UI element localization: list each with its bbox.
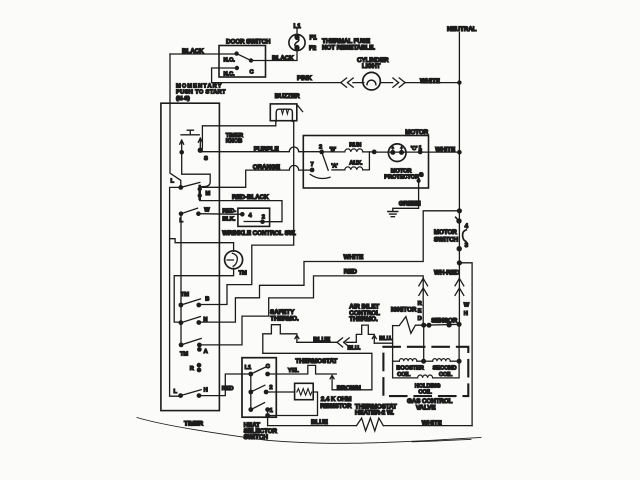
- motor protector: [388, 144, 406, 162]
- arrow safety tap: [295, 335, 299, 342]
- svg-text:BLU.: BLU.: [348, 346, 361, 352]
- label MOTOR PROTECTOR: [384, 169, 419, 181]
- page tear curve: [137, 418, 481, 444]
- svg-text:HEATER-2 W.: HEATER-2 W.: [355, 410, 394, 417]
- svg-text:COIL: COIL: [418, 390, 432, 396]
- svg-text:SENSOR: SENSOR: [431, 317, 458, 324]
- wire S to buzzer: [201, 122, 276, 151]
- svg-text:YEL: YEL: [288, 368, 299, 374]
- contact N: [179, 317, 202, 326]
- label TIMER KNOB: [226, 133, 243, 145]
- label THERMOSTAT HEATER-2 W.: [355, 403, 397, 416]
- solenoid M: [198, 186, 202, 199]
- contact 1: [418, 150, 423, 155]
- svg-text:TM: TM: [181, 292, 189, 298]
- sensor: [421, 322, 461, 328]
- svg-text:TM: TM: [239, 271, 247, 277]
- label AIR INLET CONTROL THERMO.: [349, 304, 380, 324]
- wire white bottom: [383, 425, 472, 427]
- node run/aux junction: [372, 150, 377, 155]
- wire protector to neutral (white): [420, 151, 459, 153]
- svg-text:E: E: [418, 309, 422, 315]
- wire TM supply from left rail: [170, 239, 234, 252]
- svg-text:N.C.: N.C.: [224, 72, 235, 78]
- svg-text:RED-: RED-: [222, 208, 236, 214]
- node WH-RED junction: [457, 260, 462, 265]
- svg-text:NEUTRAL: NEUTRAL: [447, 26, 477, 33]
- svg-text:BLACK: BLACK: [272, 55, 294, 62]
- node motor white junction: [457, 150, 462, 155]
- svg-text:RED-BLACK: RED-BLACK: [232, 194, 269, 201]
- svg-text:WHITE: WHITE: [422, 420, 442, 427]
- svg-text:A: A: [204, 349, 208, 355]
- wire red from timer H: [199, 374, 251, 396]
- wire brown loop: [263, 353, 372, 390]
- wire black feed to N.O.: [170, 53, 237, 55]
- wire red-black: [200, 199, 282, 222]
- wire orange: [202, 165, 312, 187]
- svg-text:M: M: [206, 191, 211, 197]
- svg-text:BUZZER: BUZZER: [275, 93, 300, 100]
- label thermal fuse: [322, 38, 375, 52]
- svg-text:H: H: [204, 388, 208, 394]
- svg-text:7: 7: [311, 162, 314, 168]
- svg-text:F2: F2: [309, 45, 317, 52]
- thermostat heater resistor: [357, 418, 384, 431]
- svg-text:THERMO.: THERMO.: [349, 316, 378, 323]
- motor switch blade 2-A: [322, 152, 329, 170]
- label HOLDING COIL: [415, 384, 441, 396]
- node G terminal: [417, 179, 421, 183]
- label HEAT SELECTOR SWITCH: [244, 422, 278, 441]
- air inlet control thermostat: [356, 325, 374, 342]
- wire blue bottom: [268, 425, 357, 427]
- svg-text:LIGHT: LIGHT: [362, 63, 381, 70]
- momentary contact arrow S: [198, 138, 203, 153]
- run winding: [322, 149, 375, 152]
- svg-text:G: G: [419, 172, 424, 178]
- svg-text:4: 4: [465, 223, 469, 230]
- wire fuse to door switch C: [252, 51, 298, 61]
- wire wh-red branch to WH vertical: [459, 263, 472, 426]
- svg-text:2.4 K OHM: 2.4 K OHM: [321, 396, 352, 403]
- wire sensor leg into valve: [458, 324, 460, 361]
- svg-text:SECOND: SECOND: [433, 366, 457, 372]
- svg-text:C: C: [250, 70, 254, 76]
- svg-text:RESISTOR: RESISTOR: [320, 403, 352, 410]
- node junction lamp/neutral: [457, 80, 461, 84]
- contact L-H: [178, 390, 201, 398]
- svg-text:W: W: [464, 303, 470, 309]
- label SAFETY THERMO.: [270, 309, 299, 323]
- svg-text:WH-RED: WH-RED: [434, 270, 460, 277]
- svg-text:L: L: [174, 389, 178, 395]
- svg-text:D: D: [418, 316, 422, 322]
- second coil: [424, 359, 460, 362]
- svg-text:2: 2: [262, 214, 265, 220]
- connector chevrons wh leg: [455, 278, 464, 295]
- svg-text:BLACK: BLACK: [182, 48, 204, 55]
- svg-text:RUN: RUN: [349, 142, 361, 148]
- wire pink line: [212, 82, 460, 84]
- wire black vertical down into timer: [170, 54, 181, 187]
- node neutral/motor-switch junction: [457, 208, 462, 213]
- svg-text:BLUE: BLUE: [313, 337, 330, 344]
- svg-text:RED: RED: [222, 386, 234, 392]
- label RED-BLK: [222, 208, 236, 222]
- svg-text:TM: TM: [180, 351, 188, 357]
- wire neutral vertical: [458, 32, 460, 211]
- svg-text:BLU.: BLU.: [379, 336, 392, 342]
- wire heat sel 1 stem: [267, 410, 269, 426]
- svg-text:WHITE: WHITE: [420, 78, 440, 85]
- connector chevrons pink right: [393, 78, 405, 87]
- label CYLINDER LIGHT: [357, 57, 389, 70]
- wrinkle control switch: [238, 208, 270, 226]
- motor box: [303, 136, 428, 189]
- label GAS CONTROL VALVE: [407, 398, 453, 411]
- wire ignitor leg into valve: [423, 325, 425, 361]
- connector chevrons red leg: [419, 278, 428, 295]
- wire WH down leg: [458, 263, 460, 325]
- door switch: [219, 46, 266, 78]
- node second coil junction: [457, 359, 462, 364]
- svg-text:BROWN: BROWN: [337, 385, 362, 392]
- svg-text:GREEN: GREEN: [399, 200, 421, 207]
- wire left contact rail: [180, 214, 182, 345]
- svg-text:WRINKLE CONTROL SW.: WRINKLE CONTROL SW.: [222, 230, 296, 237]
- svg-text:C: C: [266, 364, 270, 370]
- label MOMENTARY PUSH TO START: [176, 83, 226, 101]
- wire TM bottom to N contact: [174, 268, 233, 322]
- svg-text:BLUE: BLUE: [311, 419, 328, 426]
- label SECOND COIL: [433, 366, 457, 378]
- blade spring arc: [310, 174, 330, 178]
- svg-text:2: 2: [269, 385, 272, 391]
- wire buzzer right lead down to B staircase: [201, 121, 294, 304]
- safety thermostat: [263, 325, 297, 353]
- svg-text:BLK.: BLK.: [222, 217, 235, 223]
- arrow air inlet tap: [372, 335, 376, 343]
- svg-text:MOMENTARY: MOMENTARY: [176, 83, 223, 89]
- wire heat sel 2 to resistor: [266, 391, 295, 393]
- wire momentary hook to M: [182, 152, 211, 186]
- svg-text:W: W: [204, 207, 210, 213]
- svg-text:4: 4: [249, 213, 253, 219]
- svg-text:BOOSTER: BOOSTER: [396, 366, 423, 372]
- arrow brown tap: [330, 375, 334, 389]
- svg-text:WHITE: WHITE: [344, 254, 364, 261]
- gas control valve dashed box: [383, 347, 468, 396]
- connector chevrons pink left: [341, 78, 353, 87]
- svg-text:RED: RED: [344, 269, 358, 276]
- wire N.C. to pink line: [212, 68, 237, 83]
- buzzer: [270, 104, 302, 121]
- thermal fuse F1-F2: [289, 34, 305, 51]
- svg-text:L: L: [171, 179, 175, 185]
- holding coil loop: [393, 361, 460, 378]
- wire white riser to junction: [201, 211, 459, 322]
- timer motor TM: [225, 251, 243, 269]
- wire purple: [201, 147, 322, 152]
- svg-text:COIL: COIL: [439, 372, 453, 378]
- svg-text:F1: F1: [310, 35, 318, 42]
- cylinder light: [363, 72, 381, 90]
- svg-text:ORANGE: ORANGE: [253, 164, 280, 171]
- svg-text:R: R: [418, 301, 422, 307]
- contact L junction: [178, 182, 199, 189]
- svg-text:AUX.: AUX.: [349, 161, 363, 167]
- label BOOSTER COIL: [396, 366, 423, 378]
- page tear stroke 2: [412, 439, 471, 442]
- svg-text:'C': 'C': [411, 146, 418, 152]
- timer box: [161, 103, 220, 410]
- svg-text:TIMER: TIMER: [184, 421, 204, 428]
- contact TM-B: [179, 299, 202, 308]
- svg-text:COIL: COIL: [397, 372, 411, 378]
- contact A: [179, 338, 202, 351]
- timer knob push symbol: [181, 130, 199, 135]
- booster coil: [393, 359, 424, 362]
- wire resistor to heat sel 1: [268, 392, 318, 416]
- svg-text:PINK: PINK: [297, 75, 312, 82]
- svg-text:KNOB: KNOB: [226, 139, 242, 145]
- aux winding: [332, 152, 369, 170]
- svg-text:MOTOR: MOTOR: [434, 229, 457, 236]
- svg-text:'A': 'A': [331, 164, 338, 170]
- svg-text:N.O.: N.O.: [224, 58, 236, 64]
- svg-text:R: R: [190, 366, 194, 372]
- wire blue to valve: [374, 342, 392, 344]
- svg-text:B: B: [205, 296, 209, 302]
- node heater junction: [265, 413, 270, 418]
- svg-text:L1: L1: [245, 365, 251, 371]
- label MOTOR SWITCH: [434, 229, 459, 243]
- wire blue: [297, 341, 356, 343]
- svg-text:H: H: [464, 311, 468, 317]
- wire L1 to fuse: [296, 29, 298, 35]
- contact 7: [310, 168, 315, 173]
- label W H vertical: [464, 303, 470, 318]
- ignitor: [393, 317, 424, 334]
- svg-text:3: 3: [465, 242, 469, 249]
- wire G to ground: [393, 181, 419, 212]
- svg-text:IGNITOR: IGNITOR: [391, 307, 417, 314]
- svg-text:S: S: [204, 156, 208, 162]
- resistor 2.4K box: [295, 383, 314, 399]
- svg-text:MOTOR: MOTOR: [405, 129, 428, 136]
- wire junction to protector: [374, 151, 420, 153]
- label R E D vertical: [418, 301, 422, 322]
- wire valve left vertical: [392, 326, 394, 362]
- svg-text:DOOR SWITCH: DOOR SWITCH: [226, 39, 271, 46]
- svg-text:2: 2: [319, 145, 322, 151]
- svg-text:NOT RESETABLE.: NOT RESETABLE.: [322, 45, 375, 52]
- svg-text:THERMO.: THERMO.: [270, 316, 299, 323]
- node booster/second junction: [421, 359, 426, 364]
- thermostat yel line: [268, 365, 337, 374]
- svg-text:PUSH TO START: PUSH TO START: [176, 90, 226, 96]
- contact 2: [319, 150, 324, 155]
- momentary contact arrow left: [179, 140, 184, 155]
- svg-text:(M-S): (M-S): [176, 96, 190, 102]
- svg-text:PURPLE: PURPLE: [254, 146, 279, 153]
- label 2.4 K OHM RESISTOR: [320, 396, 352, 410]
- svg-text:THERMOSTAT: THERMOSTAT: [295, 358, 337, 365]
- svg-text:SWITCH: SWITCH: [434, 236, 459, 243]
- wire red staircase: [199, 276, 423, 345]
- connector chevrons blue: [337, 338, 349, 347]
- svg-text:PROTECTOR: PROTECTOR: [384, 175, 419, 181]
- contact R pair: [197, 363, 202, 373]
- contact W row: [179, 208, 201, 216]
- svg-text:WHITE: WHITE: [435, 146, 455, 153]
- heat selector switch: [242, 358, 276, 418]
- motor switch 4-3: [456, 211, 467, 263]
- ground: [388, 212, 398, 217]
- wire L to left rail: [170, 187, 181, 396]
- svg-text:1: 1: [270, 408, 273, 414]
- svg-text:VALVE: VALVE: [416, 405, 436, 412]
- wire W to wrinkle sw: [198, 213, 242, 216]
